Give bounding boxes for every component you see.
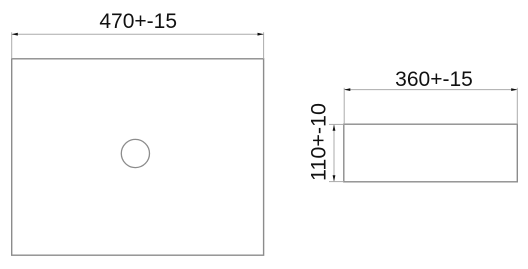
front view outline (basin body, 470 wide) (12, 59, 264, 255)
drain hole circle (121, 139, 149, 167)
dimension 470+-15: extension line left (11, 32, 13, 59)
dimension 110+-10: dimension line (333, 125, 335, 181)
svg-text:360+-15: 360+-15 (395, 68, 473, 91)
dimension 110+-10: bottom arrowhead (333, 175, 336, 181)
svg-text:470+-15: 470+-15 (99, 10, 177, 33)
dimension 110+-10: extension line bottom (329, 181, 344, 183)
dimension 360+-15: extension line left (343, 88, 345, 124)
dimension 470+-15: left arrowhead (12, 33, 18, 36)
dimension 360+-15: extension line right (516, 88, 518, 124)
dimension 470+-15: extension line right (263, 32, 265, 59)
dimension 360+-15: dimension line (345, 89, 517, 91)
dimension 360+-15: left arrowhead (344, 88, 350, 91)
dimension 110+-10: extension line top (329, 123, 344, 125)
dimension 360+-15: right arrowhead (511, 88, 517, 91)
dimension 110+-10: top arrowhead (333, 125, 336, 131)
dimension 470+-15: dimension line (13, 33, 263, 35)
svg-text:110+-10: 110+-10 (307, 103, 331, 181)
side view outline (basin body, 360 deep x 110 high) (344, 124, 518, 182)
dimension 470+-15: right arrowhead (258, 33, 264, 36)
